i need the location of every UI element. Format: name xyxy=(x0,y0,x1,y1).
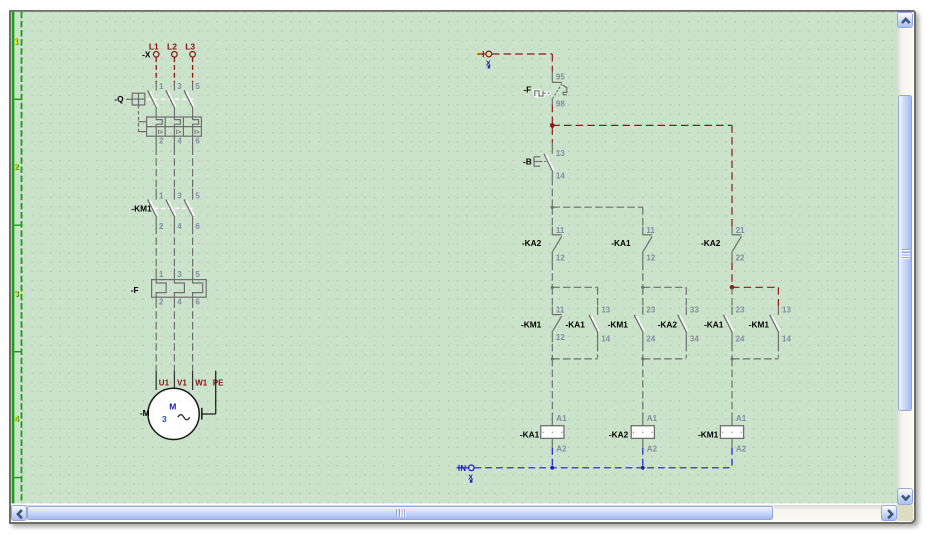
svg-text:I>: I> xyxy=(194,129,200,136)
svg-text:98: 98 xyxy=(556,99,565,108)
svg-text:U1: U1 xyxy=(159,378,170,387)
svg-text:L3: L3 xyxy=(185,41,195,51)
svg-text:13: 13 xyxy=(782,306,791,315)
svg-text:2: 2 xyxy=(14,163,19,172)
svg-text:3: 3 xyxy=(14,289,19,298)
svg-text:24: 24 xyxy=(736,335,745,344)
svg-text:M: M xyxy=(169,401,176,411)
svg-text:V1: V1 xyxy=(177,378,187,387)
svg-text:1: 1 xyxy=(159,270,164,279)
svg-text:-KA2: -KA2 xyxy=(658,319,678,329)
svg-text:13: 13 xyxy=(601,306,610,315)
svg-text:4: 4 xyxy=(177,137,182,146)
svg-text:-B: -B xyxy=(523,156,532,166)
svg-text:I>: I> xyxy=(176,129,182,136)
svg-text:13: 13 xyxy=(556,149,565,158)
svg-text:34: 34 xyxy=(690,335,699,344)
svg-text:A2: A2 xyxy=(736,444,747,453)
svg-text:4: 4 xyxy=(177,222,182,231)
svg-text:23: 23 xyxy=(736,306,745,315)
svg-text:I>: I> xyxy=(158,129,164,136)
svg-text:6: 6 xyxy=(195,222,200,231)
svg-text:12: 12 xyxy=(646,253,655,262)
svg-text:1: 1 xyxy=(159,82,164,91)
svg-text:-KA1: -KA1 xyxy=(704,319,724,329)
svg-text:14: 14 xyxy=(782,335,791,344)
svg-text:-KA1: -KA1 xyxy=(611,238,631,248)
svg-text:2: 2 xyxy=(159,297,164,306)
svg-text:A1: A1 xyxy=(736,414,747,423)
svg-text:21: 21 xyxy=(736,226,745,235)
svg-text:5: 5 xyxy=(195,270,200,279)
svg-text:14: 14 xyxy=(556,171,565,180)
svg-text:A2: A2 xyxy=(647,444,658,453)
svg-text:11: 11 xyxy=(556,306,565,315)
svg-text:-X: -X xyxy=(142,49,151,59)
svg-text:14: 14 xyxy=(601,335,610,344)
svg-text:3: 3 xyxy=(162,414,167,424)
svg-text:3: 3 xyxy=(177,270,182,279)
svg-text:11: 11 xyxy=(646,226,655,235)
svg-text:-F: -F xyxy=(131,285,139,295)
svg-text:-KA2: -KA2 xyxy=(701,238,721,248)
svg-text:-F: -F xyxy=(523,84,531,94)
svg-text:1: 1 xyxy=(159,191,164,200)
svg-text:4: 4 xyxy=(14,415,19,424)
svg-text:6: 6 xyxy=(195,297,200,306)
svg-text:11: 11 xyxy=(556,226,565,235)
svg-text:2: 2 xyxy=(159,137,164,146)
svg-text:-Q: -Q xyxy=(114,94,124,104)
svg-text:12: 12 xyxy=(556,333,565,342)
svg-text:A2: A2 xyxy=(556,444,567,453)
svg-text:-KM1: -KM1 xyxy=(521,319,542,329)
svg-text:95: 95 xyxy=(556,73,565,82)
svg-text:A1: A1 xyxy=(556,414,567,423)
svg-text:-KA1: -KA1 xyxy=(566,319,586,329)
svg-text:24: 24 xyxy=(646,335,655,344)
svg-text:3: 3 xyxy=(177,191,182,200)
svg-text:33: 33 xyxy=(690,306,699,315)
svg-text:4: 4 xyxy=(177,297,182,306)
svg-text:-M: -M xyxy=(140,408,150,418)
svg-text:2: 2 xyxy=(159,222,164,231)
svg-text:22: 22 xyxy=(736,253,745,262)
svg-text:W1: W1 xyxy=(195,378,208,387)
svg-text:12: 12 xyxy=(556,253,565,262)
svg-text:-KM1: -KM1 xyxy=(608,319,629,329)
svg-text:-KA1: -KA1 xyxy=(520,430,540,440)
svg-text:L2: L2 xyxy=(167,41,177,51)
svg-text:-KM1: -KM1 xyxy=(698,430,719,440)
svg-text:5: 5 xyxy=(195,82,200,91)
svg-text:3: 3 xyxy=(177,82,182,91)
svg-text:-KM1: -KM1 xyxy=(131,203,152,213)
svg-text:A1: A1 xyxy=(647,414,658,423)
svg-text:23: 23 xyxy=(646,306,655,315)
svg-text:6: 6 xyxy=(195,137,200,146)
svg-text:5: 5 xyxy=(195,191,200,200)
svg-text:1: 1 xyxy=(14,37,19,46)
svg-text:-KA2: -KA2 xyxy=(609,430,629,440)
svg-text:-KM1: -KM1 xyxy=(749,319,770,329)
svg-text:PE: PE xyxy=(213,378,224,387)
svg-text:-KA2: -KA2 xyxy=(522,238,542,248)
